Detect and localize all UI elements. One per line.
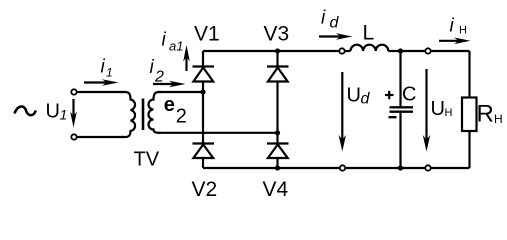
label V4 bbox=[263, 178, 289, 201]
terminal circle top-left bbox=[71, 89, 76, 94]
svg-text:2: 2 bbox=[176, 105, 187, 127]
transformer TV secondary winding bbox=[149, 92, 162, 133]
svg-text:d: d bbox=[330, 14, 340, 31]
label ia1 bbox=[162, 30, 184, 54]
svg-text:TV: TV bbox=[134, 149, 160, 171]
diode V4 bbox=[267, 144, 289, 159]
svg-text:1: 1 bbox=[60, 107, 68, 123]
terminal circle bottom (below C node) bbox=[425, 165, 430, 170]
node secondary-bottom junction bbox=[275, 130, 280, 135]
svg-text:L: L bbox=[363, 22, 375, 45]
svg-text:U: U bbox=[347, 85, 361, 107]
transformer core bbox=[142, 99, 145, 131]
svg-text:d: d bbox=[361, 90, 371, 107]
resistor RH bbox=[462, 98, 477, 132]
label + of C bbox=[385, 91, 394, 99]
label i1 bbox=[101, 57, 113, 80]
capacitor C plates bbox=[390, 107, 414, 111]
node bottom rail / C branch bbox=[398, 165, 403, 170]
svg-text:V4: V4 bbox=[263, 178, 289, 201]
label C bbox=[402, 84, 416, 106]
svg-text:1: 1 bbox=[106, 66, 113, 80]
terminal circle bottom (below L input) bbox=[340, 165, 345, 170]
wire secondary top to bridge bbox=[159, 91, 203, 93]
wire right bridge branch bbox=[276, 51, 278, 168]
svg-text:U: U bbox=[46, 101, 60, 123]
svg-text:V1: V1 bbox=[194, 23, 220, 46]
label e2 bbox=[164, 94, 187, 127]
node bottom rail / V4 branch bbox=[275, 165, 280, 170]
arrow i2 (right) bbox=[153, 81, 186, 88]
svg-text:R: R bbox=[477, 100, 494, 127]
terminal circle top (before L) bbox=[339, 48, 344, 53]
node secondary-top junction bbox=[200, 89, 205, 94]
arrow iH (right) bbox=[439, 38, 471, 45]
label RH bbox=[477, 100, 503, 127]
svg-text:V2: V2 bbox=[192, 178, 218, 201]
diode V2 bbox=[193, 144, 215, 159]
label U1 bbox=[46, 101, 68, 123]
svg-text:U: U bbox=[431, 98, 445, 120]
wire primary bottom bbox=[77, 136, 123, 138]
arrow id (right) bbox=[319, 33, 353, 40]
label i2 bbox=[150, 57, 165, 86]
wire secondary bottom to bridge bbox=[159, 132, 278, 134]
arrow UH (down) bbox=[423, 69, 430, 152]
diode V1 bbox=[193, 67, 215, 82]
arrow Ud (down) bbox=[339, 72, 346, 152]
svg-text:V3: V3 bbox=[264, 23, 290, 46]
wire top rail bbox=[203, 50, 470, 52]
capacitor C branch wire top bbox=[399, 51, 401, 106]
wire bottom rail bbox=[203, 167, 470, 169]
svg-text:a1: a1 bbox=[169, 39, 183, 54]
label V3 bbox=[264, 23, 290, 46]
svg-text:e: e bbox=[164, 94, 175, 116]
label L bbox=[363, 22, 375, 45]
diode V3 bbox=[267, 67, 289, 82]
terminal circle bottom-left bbox=[71, 134, 76, 139]
wire primary top bbox=[77, 91, 123, 93]
wire left bridge branch bbox=[202, 51, 204, 168]
node top rail / V3 branch bbox=[275, 48, 280, 53]
ac source symbol ~ bbox=[15, 106, 36, 115]
node top rail / C branch bbox=[398, 48, 403, 53]
capacitor C branch wire bottom bbox=[399, 113, 401, 168]
svg-text:C: C bbox=[402, 84, 416, 106]
label iH bbox=[450, 16, 468, 37]
label UH bbox=[431, 98, 453, 120]
label TV bbox=[134, 149, 160, 171]
wire right branch to RH bbox=[468, 51, 470, 168]
label V1 bbox=[194, 23, 220, 46]
svg-text:H: H bbox=[459, 25, 467, 37]
label - of C bbox=[389, 116, 397, 118]
svg-text:H: H bbox=[494, 112, 503, 126]
label Ud bbox=[347, 85, 371, 108]
terminal circle top (after C node) bbox=[425, 48, 430, 53]
svg-text:H: H bbox=[445, 107, 453, 119]
inductor L bbox=[351, 45, 389, 51]
arrow ia1 (up) bbox=[183, 45, 190, 71]
label V2 bbox=[192, 178, 218, 201]
label id bbox=[321, 7, 340, 31]
arrow i1 (right) bbox=[84, 79, 119, 86]
transformer TV primary winding bbox=[121, 92, 135, 137]
arrow U1 (down) bbox=[70, 99, 77, 128]
